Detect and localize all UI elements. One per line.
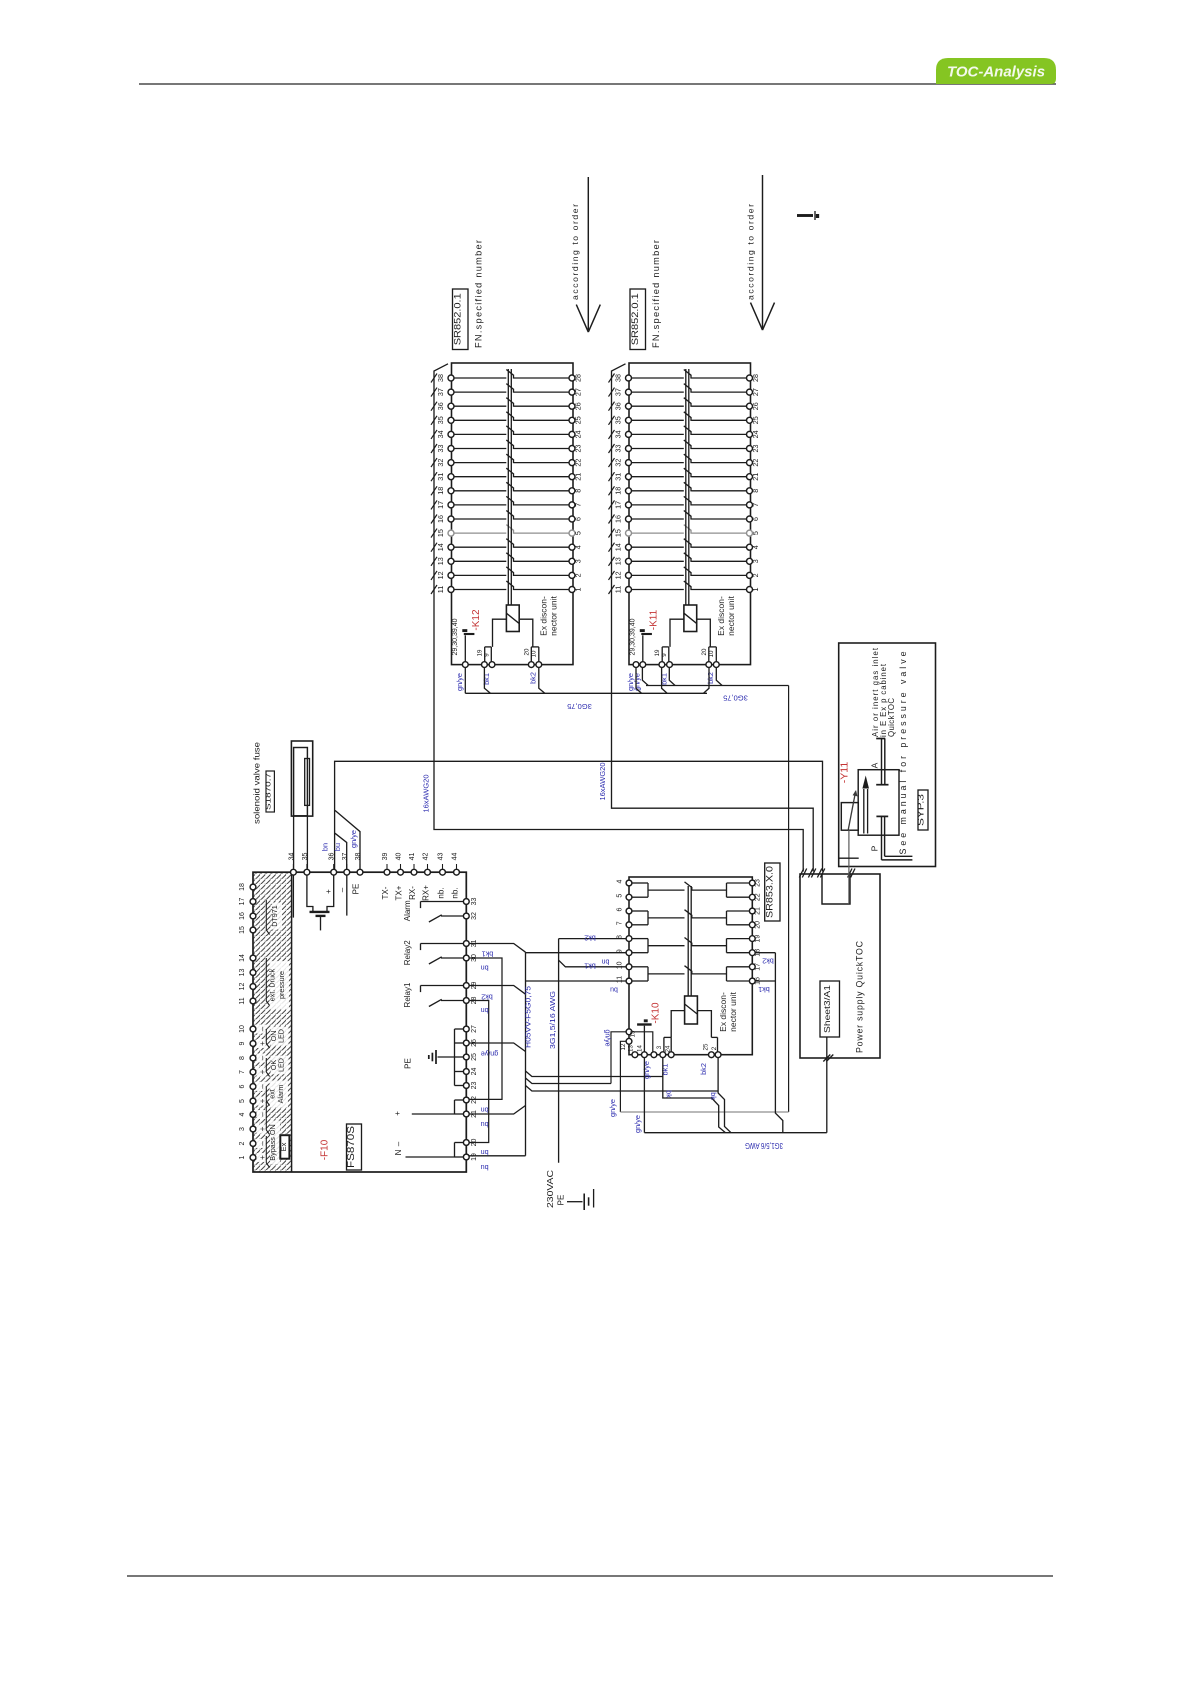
svg-text:38: 38 xyxy=(436,374,445,382)
svg-text:41: 41 xyxy=(409,853,416,861)
wire sheet3 to gn/ye bus xyxy=(826,1037,828,1133)
svg-text:bk2: bk2 xyxy=(762,957,774,966)
svg-text:36: 36 xyxy=(329,853,336,861)
svg-text:SYP.3: SYP.3 xyxy=(916,793,925,826)
svg-text:LED: LED xyxy=(277,1029,286,1043)
svg-text:36: 36 xyxy=(436,402,445,410)
svg-text:7: 7 xyxy=(751,503,760,507)
FS870S left pins 1-18 xyxy=(239,883,256,891)
svg-text:19: 19 xyxy=(471,1153,478,1161)
svg-text:14: 14 xyxy=(636,1045,643,1052)
svg-text:20: 20 xyxy=(701,648,708,655)
svg-text:34: 34 xyxy=(436,430,445,438)
cable 3G0,75 run K11 to power supply xyxy=(646,685,789,687)
FS870S internal battery symbol xyxy=(307,876,313,912)
svg-text:bu: bu xyxy=(333,843,342,851)
svg-text:6: 6 xyxy=(239,1084,246,1088)
cable exit wire 3 xyxy=(526,1086,719,1092)
group leader line xyxy=(266,900,269,935)
svg-text:P: P xyxy=(870,845,880,851)
group leader line xyxy=(266,958,269,1006)
svg-text:8: 8 xyxy=(239,1056,246,1060)
svg-text:34: 34 xyxy=(288,853,295,861)
svg-text:23: 23 xyxy=(574,445,583,453)
svg-text:5: 5 xyxy=(239,1099,246,1103)
svg-text:32: 32 xyxy=(614,459,623,467)
K11 coil xyxy=(684,605,697,632)
svg-text:29,30,39,40: 29,30,39,40 xyxy=(630,618,637,655)
svg-text:+: + xyxy=(258,1155,267,1160)
cable entry ticks xyxy=(799,869,806,878)
svg-text:3G0,75: 3G0,75 xyxy=(723,694,748,703)
svg-text:TX+: TX+ xyxy=(395,885,404,900)
wire bk1 K11 left xyxy=(662,668,668,694)
gn/ye bus to K10 pin 12 xyxy=(611,1032,626,1084)
jumper gray pin28-pin20 xyxy=(470,1001,489,1143)
svg-text:27: 27 xyxy=(751,388,760,396)
svg-text:14: 14 xyxy=(239,954,246,962)
svg-text:+: + xyxy=(393,1111,402,1116)
svg-text:bk1: bk1 xyxy=(660,673,669,685)
K10 bottom terminals xyxy=(632,1052,638,1058)
K10 pins xyxy=(617,879,762,887)
svg-text:bu: bu xyxy=(610,986,618,993)
power supply entry notch xyxy=(822,874,850,904)
cable bn/bu/gnye to power supply xyxy=(335,761,823,872)
svg-text:15: 15 xyxy=(630,1030,637,1037)
svg-text:Alarm: Alarm xyxy=(403,900,412,921)
svg-text:31: 31 xyxy=(436,473,445,481)
K11 contact row 32-22 xyxy=(609,454,761,467)
svg-text:4: 4 xyxy=(751,545,760,549)
svg-text:bk1: bk1 xyxy=(584,962,596,971)
wire gn/ye pin26 to cable xyxy=(470,1043,526,1052)
svg-text:13: 13 xyxy=(436,557,445,565)
svg-text:bk: bk xyxy=(665,1090,674,1098)
svg-text:bk1: bk1 xyxy=(482,673,491,685)
FS870S contact Relay2 xyxy=(403,940,463,965)
svg-text:N: N xyxy=(394,1149,403,1155)
label box SYP.3 xyxy=(918,790,928,830)
svg-text:44: 44 xyxy=(452,853,459,861)
K11 contact row 37-27 xyxy=(609,384,761,397)
svg-text:gn/ye: gn/ye xyxy=(604,1029,611,1046)
svg-text:18: 18 xyxy=(239,883,246,891)
svg-text:34: 34 xyxy=(614,430,623,438)
svg-text:1: 1 xyxy=(574,588,583,592)
svg-text:11: 11 xyxy=(239,997,246,1004)
svg-text:SR852.0.1: SR852.0.1 xyxy=(452,293,463,345)
svg-text:24: 24 xyxy=(665,1045,672,1052)
svg-text:-F10: -F10 xyxy=(320,1139,331,1160)
FS870S PE comb pins 23-27 xyxy=(455,1028,464,1030)
FS870S type label box xyxy=(347,1124,362,1170)
K11 contact row 34-24 xyxy=(609,426,761,439)
svg-text:12: 12 xyxy=(436,571,445,579)
FS870S group label ext. Druck / pressure xyxy=(270,961,290,1009)
K11 coil terminal 20/10 xyxy=(697,619,711,647)
FS870S N bracket pins 19-20 xyxy=(455,1142,464,1144)
svg-text:Alarm: Alarm xyxy=(276,1085,285,1104)
svg-text:7: 7 xyxy=(617,921,624,925)
actuator stroke arrow xyxy=(848,792,855,830)
gn/ye gray bus to valve xyxy=(620,1111,788,1113)
FS870S contact Alarm xyxy=(403,900,463,922)
svg-text:11: 11 xyxy=(617,976,624,983)
svg-text:13: 13 xyxy=(627,1045,634,1052)
wire bu pin19 to cable xyxy=(470,1155,526,1157)
svg-text:18: 18 xyxy=(614,487,623,495)
wire gn/ye K11 right xyxy=(642,668,648,686)
svg-text:ext. Druck: ext. Druck xyxy=(268,968,277,1001)
svg-text:15: 15 xyxy=(436,529,445,537)
svg-text:10: 10 xyxy=(531,650,538,657)
FS870S group label OK LED xyxy=(271,1056,289,1075)
K11 contact row 31-21 xyxy=(609,468,761,481)
svg-text:bn: bn xyxy=(602,958,610,965)
svg-text:–: – xyxy=(258,1112,267,1117)
FS870S Ex box xyxy=(280,1135,289,1159)
svg-text:43: 43 xyxy=(438,853,445,861)
svg-text:bn: bn xyxy=(481,1006,489,1015)
K11 contact row 35-25 xyxy=(609,412,761,425)
svg-text:38: 38 xyxy=(355,853,362,861)
svg-text:gn/ye: gn/ye xyxy=(349,830,358,848)
FS870S pin37 internal wire xyxy=(346,876,348,916)
footer rule xyxy=(127,1575,1053,1577)
svg-text:23: 23 xyxy=(755,879,762,887)
valve cabinet box SYP.3 xyxy=(839,643,936,867)
K10 linkage xyxy=(687,886,689,996)
header rule xyxy=(139,83,1056,85)
valve flow path arrow xyxy=(863,789,865,834)
svg-text:bu: bu xyxy=(481,1120,489,1129)
svg-text:bk: bk xyxy=(709,1092,718,1100)
svg-text:bk2: bk2 xyxy=(699,1063,708,1075)
svg-text:Ex discon-: Ex discon- xyxy=(539,596,549,636)
K11 contact row 18-8 xyxy=(609,482,761,495)
svg-text:17: 17 xyxy=(436,501,445,509)
svg-text:LED: LED xyxy=(277,1058,286,1072)
svg-text:10: 10 xyxy=(239,1025,246,1033)
svg-text:24: 24 xyxy=(751,430,760,438)
svg-text:nb.: nb. xyxy=(451,887,460,898)
K12 linkage xyxy=(507,369,509,605)
svg-text:42: 42 xyxy=(423,853,430,861)
svg-text:3: 3 xyxy=(239,1127,246,1131)
cable 16xAWG20 from K12 xyxy=(434,594,803,872)
svg-text:20: 20 xyxy=(524,648,531,655)
K12 contact row 13-3 xyxy=(431,553,583,566)
svg-text:22: 22 xyxy=(574,459,583,467)
FS870S contact Relay1 xyxy=(403,982,463,1007)
gray wire valve to power supply xyxy=(848,830,850,903)
svg-text:solenoid valve fuse: solenoid valve fuse xyxy=(253,742,262,824)
svg-text:according to order: according to order xyxy=(746,204,756,300)
group leader line xyxy=(266,1087,269,1106)
svg-text:gn/ye: gn/ye xyxy=(481,1050,499,1059)
svg-text:bn: bn xyxy=(481,1106,489,1115)
svg-text:4: 4 xyxy=(617,879,624,883)
svg-text:Ex discon-: Ex discon- xyxy=(716,596,726,636)
wire right pins down to power supply xyxy=(775,953,782,1133)
svg-text:5: 5 xyxy=(617,894,624,898)
svg-text:bu: bu xyxy=(481,1163,489,1172)
svg-text:19: 19 xyxy=(477,649,484,656)
svg-text:16: 16 xyxy=(436,515,445,523)
svg-text:PE: PE xyxy=(404,1058,413,1069)
K11 coil terminal 19/9 xyxy=(670,619,684,647)
svg-text:10: 10 xyxy=(617,961,624,969)
svg-text:24: 24 xyxy=(574,430,583,438)
wire bk2 K11 left xyxy=(704,668,710,694)
svg-text:24: 24 xyxy=(471,1068,478,1076)
svg-text:Bypass ON: Bypass ON xyxy=(268,1124,277,1160)
svg-text:17: 17 xyxy=(239,898,246,906)
FS870S group label ext Alarm xyxy=(270,1081,289,1108)
cable exit wire 1 xyxy=(526,1071,663,1077)
svg-text:12: 12 xyxy=(614,571,623,579)
svg-text:39: 39 xyxy=(382,853,389,861)
FS870S group label DT971 xyxy=(272,903,282,930)
K12 contact row 16-6 xyxy=(431,511,583,524)
wire bk2 K12 to cable xyxy=(539,668,545,694)
svg-text:16xAWG20: 16xAWG20 xyxy=(598,762,607,800)
svg-text:35: 35 xyxy=(436,416,445,424)
FS870S earth symbol xyxy=(435,1050,437,1064)
svg-text:S1870.7: S1870.7 xyxy=(263,773,272,810)
PE earth wire xyxy=(567,1201,583,1203)
fuse wire to pin 34 xyxy=(293,816,295,869)
chassis mark top right xyxy=(797,214,813,217)
svg-text:RX-: RX- xyxy=(408,886,417,900)
K11 shield terminal gn/ye xyxy=(640,662,646,668)
K12 contact row 12-2 xyxy=(431,567,583,580)
svg-text:1: 1 xyxy=(751,588,760,592)
svg-text:28: 28 xyxy=(574,374,583,382)
svg-text:9: 9 xyxy=(661,653,668,657)
sheet reference box Sheet3/A1 xyxy=(820,981,840,1037)
FS870S pin34 internal wire xyxy=(292,876,294,918)
svg-text:4: 4 xyxy=(574,545,583,549)
svg-text:37: 37 xyxy=(614,388,623,396)
svg-text:9: 9 xyxy=(617,949,624,953)
svg-text:TOC-Analysis: TOC-Analysis xyxy=(947,64,1045,81)
svg-text:17: 17 xyxy=(614,501,623,509)
svg-text:–: – xyxy=(394,1141,403,1146)
FS870S group label Bypass ON xyxy=(270,1121,280,1165)
K12 type label SR852.0.1 xyxy=(453,289,469,350)
K10 coil terminal 3/24 xyxy=(671,1011,684,1038)
svg-text:+: + xyxy=(258,1041,267,1046)
svg-text:bk1: bk1 xyxy=(661,1064,670,1076)
group leader line xyxy=(266,1058,269,1077)
svg-text:26: 26 xyxy=(751,402,760,410)
svg-text:14: 14 xyxy=(614,543,623,551)
svg-text:37: 37 xyxy=(436,388,445,396)
svg-text:Ex discon-: Ex discon- xyxy=(718,992,728,1032)
svg-text:QuickTOC: QuickTOC xyxy=(887,698,896,737)
K11 contact row 33-23 xyxy=(609,440,761,453)
svg-text:25: 25 xyxy=(471,1053,478,1061)
svg-text:16: 16 xyxy=(239,912,246,920)
gn/ye wire from K10 pin12 down xyxy=(620,1041,626,1112)
K12 contact row 18-8 xyxy=(431,482,583,495)
svg-text:DT971: DT971 xyxy=(270,905,279,927)
wire bk1 K12 to cable xyxy=(484,668,490,694)
cable 3G0,75 vertical to gn/ye bus xyxy=(788,686,790,1113)
svg-text:3: 3 xyxy=(751,559,760,563)
svg-text:9: 9 xyxy=(484,653,491,657)
svg-text:7: 7 xyxy=(574,503,583,507)
svg-text:20: 20 xyxy=(755,921,762,929)
svg-text:21: 21 xyxy=(751,473,760,481)
wire gn/ye K10 to power supply xyxy=(643,1058,645,1133)
K10 coil terminal 25/2 xyxy=(697,1011,711,1038)
K12 contact row 33-23 xyxy=(431,440,583,453)
K11 contact row 12-2 xyxy=(609,567,761,580)
FS870S hatched terminal zone xyxy=(254,873,292,1172)
svg-text:nb.: nb. xyxy=(437,887,446,898)
cable exit wire 2 xyxy=(526,1078,612,1084)
wire bk2 to K10 pin 8 xyxy=(559,938,626,940)
svg-text:33: 33 xyxy=(614,445,623,453)
K10 type label SR853.X.0 xyxy=(765,863,780,921)
svg-text:8: 8 xyxy=(617,935,624,939)
svg-text:bn: bn xyxy=(481,1148,489,1157)
K12 coil terminal 20/10 xyxy=(519,619,533,647)
svg-text:6: 6 xyxy=(751,517,760,521)
svg-text:35: 35 xyxy=(614,416,623,424)
svg-text:11: 11 xyxy=(614,586,623,593)
wire bu from pin 37 xyxy=(335,833,347,872)
svg-text:26: 26 xyxy=(574,402,583,410)
svg-text:6: 6 xyxy=(574,517,583,521)
K11 contact row 13-3 xyxy=(609,553,761,566)
svg-text:23: 23 xyxy=(471,1082,478,1090)
svg-text:35: 35 xyxy=(302,853,309,861)
cable H05VV-F5G0,75 spine xyxy=(525,952,527,1156)
svg-text:10: 10 xyxy=(708,650,715,657)
K12 contact row 11-1 xyxy=(431,581,583,594)
cable entry line in SYP3 xyxy=(839,857,859,859)
K12 contact row 31-21 xyxy=(431,468,583,481)
K11 contact row 15-5 xyxy=(609,525,761,538)
svg-text:pressure: pressure xyxy=(277,971,286,999)
svg-text:2: 2 xyxy=(574,573,583,577)
svg-text:Ex: Ex xyxy=(279,1142,288,1151)
svg-text:37: 37 xyxy=(342,853,349,861)
K11 type label SR852.0.1 xyxy=(630,289,646,350)
K11 contact row 14-4 xyxy=(609,539,761,552)
svg-text:A: A xyxy=(870,762,880,768)
svg-text:3: 3 xyxy=(574,559,583,563)
fuse label box S1870.7 xyxy=(266,771,274,812)
K11 extra gn/ye terminal xyxy=(633,662,639,668)
svg-text:-K11: -K11 xyxy=(649,609,660,630)
svg-text:bk1: bk1 xyxy=(482,950,494,959)
svg-text:FS870S: FS870S xyxy=(346,1126,357,1168)
K10 chassis symbol xyxy=(637,1023,652,1025)
wire gn/ye from pin 38 xyxy=(335,810,360,872)
svg-text:nector unit: nector unit xyxy=(549,596,559,636)
svg-text:according to order: according to order xyxy=(570,204,580,300)
svg-text:bk2: bk2 xyxy=(706,672,715,684)
valve Y11 body xyxy=(858,770,899,836)
svg-text:11: 11 xyxy=(436,586,445,593)
controller F10 FS870S body xyxy=(253,872,466,1172)
svg-text:gn/ye: gn/ye xyxy=(455,673,464,691)
K11 contact row 17-7 xyxy=(609,496,761,509)
svg-text:-K10: -K10 xyxy=(651,1002,662,1024)
svg-text:Relay2: Relay2 xyxy=(403,940,412,965)
K10 coil xyxy=(685,996,698,1024)
svg-text:16xAWG20: 16xAWG20 xyxy=(422,774,431,812)
wire bu to K10 pin 11 xyxy=(526,980,626,982)
svg-text:6: 6 xyxy=(617,907,624,911)
svg-text:36: 36 xyxy=(614,402,623,410)
svg-text:29,30,39,40: 29,30,39,40 xyxy=(452,618,459,655)
svg-text:bk2: bk2 xyxy=(529,672,538,684)
K12 contact row 32-22 xyxy=(431,454,583,467)
svg-text:22: 22 xyxy=(751,459,760,467)
FS870S right pins 19-33 xyxy=(463,898,478,906)
svg-text:25: 25 xyxy=(574,416,583,424)
svg-text:Sheet3/A1: Sheet3/A1 xyxy=(822,985,832,1033)
K12 contact row 38-28 xyxy=(431,370,583,383)
K12 contact row 17-7 xyxy=(431,496,583,509)
wire bk2 K11 right xyxy=(716,668,722,686)
svg-text:32: 32 xyxy=(436,459,445,467)
power supply QuickTOC box xyxy=(800,874,880,1058)
svg-text:–: – xyxy=(338,887,347,892)
K12 cable gather bracket xyxy=(434,364,448,594)
svg-text:19: 19 xyxy=(755,935,762,943)
svg-text:SR853.X.0: SR853.X.0 xyxy=(764,866,775,918)
svg-text:gn/ye: gn/ye xyxy=(608,1099,617,1117)
cable 3G1,5/16 AWG spine xyxy=(558,939,560,1163)
K11 contact row 16-6 xyxy=(609,511,761,524)
svg-text:–: – xyxy=(258,1084,267,1089)
svg-text:-K12: -K12 xyxy=(471,609,482,631)
svg-text:33: 33 xyxy=(436,445,445,453)
K11 cable gather bracket xyxy=(612,364,626,594)
svg-text:+: + xyxy=(324,889,333,894)
svg-text:nector unit: nector unit xyxy=(726,596,736,636)
cable 16xAWG20 from K11 xyxy=(612,594,814,872)
svg-text:22: 22 xyxy=(755,893,762,901)
K11 linkage xyxy=(685,369,687,605)
svg-text:+: + xyxy=(258,1098,267,1103)
svg-text:38: 38 xyxy=(614,374,623,382)
svg-text:8: 8 xyxy=(751,489,760,493)
svg-text:-Y11: -Y11 xyxy=(839,762,851,784)
FS870S + bracket pins 21-22 xyxy=(455,1099,464,1101)
FS870S polarity marks xyxy=(257,1153,266,1162)
svg-text:See manual for pressure valve: See manual for pressure valve xyxy=(898,651,908,854)
FS870S group label ON LED xyxy=(271,1027,289,1046)
svg-text:3: 3 xyxy=(656,1045,663,1049)
relay K11 Ex disconnector unit body xyxy=(629,363,751,665)
svg-text:–: – xyxy=(258,1055,267,1060)
svg-text:gn/ye: gn/ye xyxy=(626,673,635,691)
svg-text:27: 27 xyxy=(471,1025,478,1033)
svg-text:12: 12 xyxy=(620,1043,627,1050)
svg-text:+: + xyxy=(258,1069,267,1074)
svg-text:2: 2 xyxy=(711,1046,718,1050)
svg-text:gn/ye: gn/ye xyxy=(633,1115,642,1133)
svg-text:PE: PE xyxy=(352,884,361,895)
